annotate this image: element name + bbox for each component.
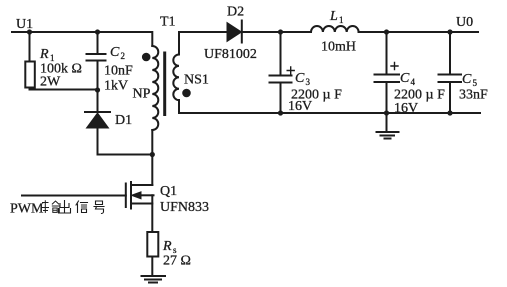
transformer T1 secondary polarity dot bbox=[182, 89, 191, 98]
transformer T1 secondary winding NS1 bbox=[173, 32, 179, 113]
label PWM output signal bbox=[10, 202, 44, 217]
svg-text:10nF: 10nF bbox=[104, 64, 133, 79]
node: junction C5 top bbox=[447, 29, 452, 34]
svg-text:L: L bbox=[329, 9, 338, 24]
capacitor C4 bbox=[375, 32, 400, 113]
wire: D2 cathode to L1 bbox=[242, 31, 311, 33]
wire: secondary top to D2 anode bbox=[179, 31, 227, 33]
svg-text:16V: 16V bbox=[288, 99, 312, 114]
svg-text:UF81002: UF81002 bbox=[204, 47, 257, 62]
label L1 bbox=[329, 9, 344, 25]
svg-text:10mH: 10mH bbox=[321, 40, 356, 55]
resistor R1 bbox=[25, 32, 35, 90]
label R5 value bbox=[162, 239, 191, 269]
label R1 value bbox=[39, 47, 82, 90]
transformer T1 core bbox=[163, 53, 166, 115]
svg-text:C: C bbox=[295, 71, 305, 86]
diode D1 bbox=[85, 112, 110, 155]
svg-text:C: C bbox=[110, 45, 120, 60]
label Chinese 出 bbox=[59, 201, 71, 214]
svg-text:T1: T1 bbox=[160, 15, 176, 30]
wire: PWM input to gate bbox=[22, 195, 126, 197]
svg-text:PWM: PWM bbox=[10, 202, 44, 217]
svg-text:U0: U0 bbox=[456, 15, 473, 30]
wire: drain up to junction bbox=[151, 155, 153, 186]
capacitor C2 bbox=[87, 32, 106, 112]
node: junction primary bottom / D1 / Q1 drain bbox=[150, 152, 155, 157]
svg-text:2: 2 bbox=[121, 51, 126, 61]
wire: input top rail from U1 terminal to transformer primary bbox=[12, 31, 152, 33]
wire: bottom ground rail bbox=[179, 112, 480, 114]
label C4 plus bbox=[391, 63, 398, 70]
label C3 value bbox=[288, 71, 342, 114]
node: junction C4 bottom / ground bbox=[384, 110, 389, 115]
svg-text:NP: NP bbox=[133, 87, 151, 102]
wire: D1 anode to drain node bbox=[98, 154, 153, 156]
svg-text:33nF: 33nF bbox=[459, 88, 488, 103]
node: junction C2 bottom / R1 / D1 bbox=[95, 87, 100, 92]
svg-text:R: R bbox=[39, 47, 49, 62]
svg-text:Q1: Q1 bbox=[160, 184, 177, 199]
svg-text:D2: D2 bbox=[227, 5, 244, 20]
resistor R5 bbox=[147, 232, 158, 276]
label C4 value bbox=[394, 71, 445, 116]
svg-text:NS1: NS1 bbox=[184, 73, 209, 88]
node: junction C4 top bbox=[384, 29, 389, 34]
label Chinese 输 bbox=[42, 201, 59, 213]
svg-text:C: C bbox=[462, 72, 472, 87]
svg-text:4: 4 bbox=[411, 77, 416, 87]
label Chinese 信 bbox=[76, 201, 88, 213]
transformer T1 primary winding NP bbox=[152, 32, 158, 155]
node: junction C3 bottom bbox=[278, 110, 283, 115]
label Chinese 号 bbox=[94, 201, 104, 214]
svg-text:D1: D1 bbox=[115, 113, 132, 128]
label C2 value bbox=[104, 45, 133, 94]
ground (output rail) bbox=[377, 113, 399, 139]
svg-text:3: 3 bbox=[306, 77, 311, 87]
svg-text:1kV: 1kV bbox=[104, 79, 128, 94]
label C3 plus bbox=[287, 67, 294, 74]
svg-text:R: R bbox=[162, 239, 172, 254]
wire: L1 to output terminal bbox=[359, 31, 478, 33]
wire: source down to R5 bbox=[151, 195, 153, 232]
diode D2 bbox=[227, 21, 242, 43]
node: junction C3 top bbox=[278, 29, 283, 34]
inductor L1 bbox=[311, 26, 359, 32]
capacitor C3 bbox=[270, 32, 292, 113]
label C5 value bbox=[459, 72, 488, 103]
node: junction C5 bottom bbox=[447, 110, 452, 115]
transformer T1 primary polarity dot bbox=[142, 53, 151, 62]
svg-text:C: C bbox=[400, 71, 410, 86]
transistor Q1 (MOSFET) bbox=[126, 182, 154, 209]
svg-text:27 Ω: 27 Ω bbox=[163, 254, 191, 269]
svg-text:2W: 2W bbox=[40, 75, 61, 90]
capacitor C5 bbox=[439, 32, 462, 113]
svg-text:1: 1 bbox=[339, 15, 344, 25]
ground (source) bbox=[142, 276, 166, 283]
node: junction at C2 top bbox=[95, 29, 100, 34]
node: junction at R1 top bbox=[27, 29, 32, 34]
wire: R1 bottom to C2/D1 node bbox=[30, 89, 98, 91]
svg-text:UFN833: UFN833 bbox=[160, 200, 209, 215]
svg-text:5: 5 bbox=[473, 78, 478, 88]
